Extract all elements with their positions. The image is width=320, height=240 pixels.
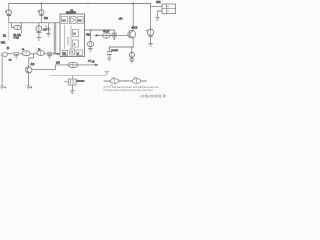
U1 pin OUT wire (85, 29, 115, 31)
signal arrow on base line (96, 34, 99, 36)
crystal X1 lead (65, 81, 69, 83)
wire top supply rail (9, 3, 151, 5)
inductor L5 (oval) (132, 79, 141, 84)
svg-text:+B: +B (92, 62, 95, 64)
wire rail down to C1 (8, 4, 10, 11)
signal arrow end (95, 64, 98, 66)
connector CN1 (162, 4, 176, 14)
wire L2 to C11 (45, 53, 60, 55)
capacitor C4 plates (47, 28, 51, 30)
U1 internal divider left (64, 26, 66, 49)
U1 internal divider mid (70, 26, 72, 49)
ground stub lower mid (105, 72, 109, 75)
ground below Q1 (26, 86, 30, 89)
node stub line (20, 23, 22, 33)
capacitor C9 (electrolytic circle style) (146, 29, 154, 36)
wire C7 to ground (108, 54, 110, 58)
wire bus to IC left (9, 22, 60, 24)
ground below C8 (130, 60, 134, 63)
capacitor C3 (electrolytic circle style) (36, 26, 42, 33)
wire C8 to ground (131, 58, 133, 60)
capacitor C4 stub (48, 23, 50, 34)
wire C10 to L1 (19, 53, 23, 55)
svg-text:1xx xxx: 1xx xxx (77, 81, 85, 83)
node junction at Q2 collector (132, 3, 134, 5)
node junction note (125, 80, 126, 81)
capacitor C5 (electrolytic ellipse) (87, 42, 93, 47)
inductor L5 lead (126, 80, 132, 82)
wire L1 to junction (30, 53, 37, 55)
wire X1 top to feed line (71, 76, 73, 79)
ground left edge (0, 86, 4, 89)
op-amp U1 outline (60, 14, 85, 57)
capacitor C1 (electrolytic circle style) (5, 10, 11, 16)
svg-text:b) single lead terminal only: b) single lead terminal only one wire us… (104, 89, 154, 92)
capacitor C10 plates (14, 52, 18, 55)
inductor L1 (oval) (22, 51, 30, 56)
capacitor C7 plates (107, 52, 112, 55)
inductor L2 (oval) (37, 51, 45, 56)
wire J1 sleeve down (1, 57, 3, 86)
node junction emitter (131, 46, 132, 47)
ground below C7 (107, 58, 111, 61)
svg-text:TPS203: TPS203 (67, 36, 70, 45)
wire bus drop 1 to input row (53, 23, 55, 54)
connector J1 audio input (1, 52, 15, 57)
U1 internal cell 2 (72, 40, 78, 47)
wire CN1 pin2 to ground (157, 11, 162, 18)
wire rail to C9 (150, 4, 152, 30)
capacitor C8 stub (131, 47, 133, 52)
wire Q1 collector right (32, 65, 56, 70)
U1 internal bottom box 3 (76, 50, 82, 56)
wire stub below bus corner (8, 23, 10, 40)
inductor L4 (oval) (110, 79, 119, 84)
inductor L3 (oval) (68, 62, 78, 67)
U1 internal bottom box 2 (filter) (70, 49, 75, 55)
transistor Q1 (26, 67, 32, 73)
U1 internal cell 1 (72, 30, 78, 37)
svg-text:2SC9: 2SC9 (132, 28, 138, 30)
wire bottom stub (50, 75, 107, 77)
wire C3 to ground (38, 33, 40, 38)
wire C1 down to bus (8, 15, 10, 22)
U1 internal bottom box 1 (62, 50, 67, 55)
capacitor C3 stub (38, 23, 40, 26)
wire X1 to ground (71, 85, 73, 91)
ground below X1 (70, 91, 74, 94)
ground below CN1 pin2 (155, 18, 159, 21)
svg-text:10u/16: 10u/16 (111, 50, 118, 52)
U1 internal input block 1 (62, 17, 68, 24)
svg-text:VR1: VR1 (1, 43, 6, 45)
ground below C6 (112, 37, 116, 40)
svg-text:e: e (31, 87, 32, 89)
wire lower feed (56, 64, 98, 66)
wire emitter rail (109, 46, 133, 48)
capacitor C2 (electrolytic circle style) (38, 10, 44, 16)
ground below C5 (88, 48, 92, 51)
crystal X1 (filter box) (68, 79, 77, 85)
resistor R1 drop (11, 23, 13, 28)
wire C2 down to bus (40, 15, 42, 22)
ground below C3 (37, 38, 41, 41)
ground below C4 (46, 33, 50, 36)
node junction 2 (53, 53, 54, 54)
resistor R3 (oval body on base line) (102, 33, 110, 38)
inductor L4 note component lead (104, 80, 110, 82)
transistor Q2 (128, 30, 136, 38)
ground below C11 (47, 55, 51, 58)
svg-text:e: e (5, 87, 6, 89)
capacitor C11 plates (47, 52, 51, 55)
node junction input (33, 53, 34, 54)
wire base line to Q2 (95, 34, 128, 36)
capacitor C6 plates (112, 33, 117, 35)
capacitor C8 (electrolytic circle style) (129, 52, 134, 58)
ground below C10 (14, 56, 18, 59)
wire Q1 emitter down (27, 73, 29, 86)
svg-text:ArduinoKit.lk: ArduinoKit.lk (139, 94, 167, 99)
svg-text:R3 2k: R3 2k (103, 31, 110, 33)
wire Q2 emitter down (132, 38, 134, 47)
wire junction to Q1 base (29, 54, 34, 67)
wire rail down to C2 (40, 4, 42, 11)
wire C9 to ground (150, 36, 152, 43)
wire C5 to ground (90, 47, 92, 49)
svg-text:IN: IN (7, 48, 10, 50)
inductor L4 leads (119, 80, 126, 82)
U1 internal amp triangle (69, 17, 76, 24)
U1 internal input block 2 (78, 17, 83, 24)
svg-text:NJM2073: NJM2073 (66, 13, 77, 15)
resistor R1 (oval body) (12, 25, 22, 29)
svg-text:C 0.1: C 0.1 (14, 37, 20, 39)
signal arrow into U1 (57, 53, 60, 55)
wire rail to connector CN1 (151, 5, 162, 7)
svg-text:CN1: CN1 (156, 2, 161, 4)
capacitor C6 drop from OUT wire (113, 30, 115, 33)
wire bus drop 2 to input row (55, 23, 57, 54)
node junction at C2 top (40, 3, 42, 5)
capacitor C4 polarity mark (45, 26, 46, 27)
inductor L5 lead right (141, 80, 147, 82)
node tick near x88 (87, 2, 89, 4)
capacitor C7 stub (108, 47, 110, 52)
wire C6 to ground (113, 35, 115, 37)
wire Q2 collector to rail (132, 4, 134, 31)
capacitor C5 stub (90, 30, 92, 42)
node junction on OUT wire (91, 29, 92, 30)
ground below C9 (148, 43, 152, 46)
